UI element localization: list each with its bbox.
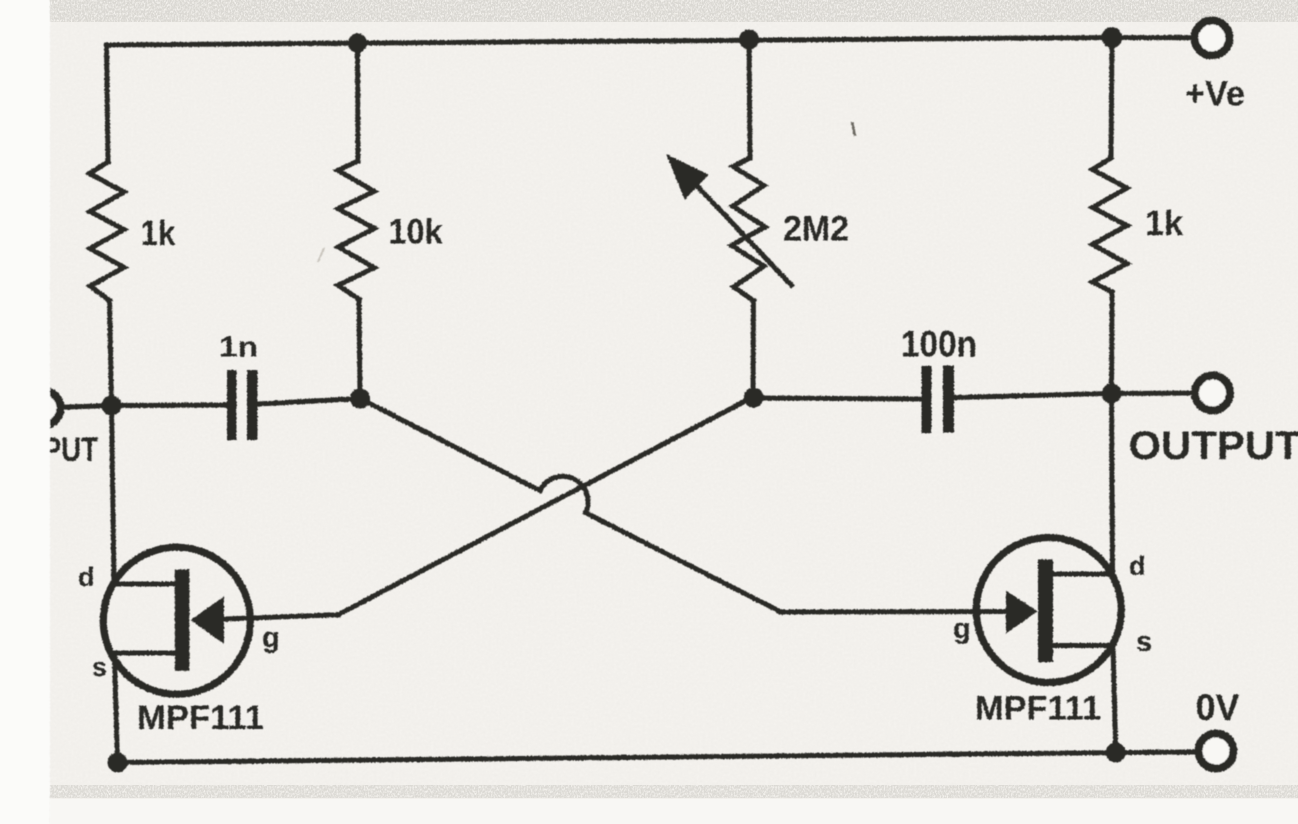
svg-text:g: g bbox=[953, 613, 971, 645]
wire right vertical upper bbox=[1111, 38, 1112, 159]
Q1 channel bar bbox=[175, 569, 190, 670]
terminal 0V bbox=[1199, 734, 1234, 769]
C2 left plate bbox=[922, 366, 932, 433]
wire 2M2 bottom lead bbox=[751, 301, 756, 397]
wire bottom rail bbox=[118, 753, 1116, 763]
svg-text:1n: 1n bbox=[219, 332, 258, 364]
scan texture band bottom bbox=[40, 785, 1298, 798]
wire 2M2 top lead bbox=[749, 40, 750, 159]
wire 10k bottom lead bbox=[359, 299, 360, 398]
wire C1 to node B bbox=[258, 399, 360, 405]
Q2 drain lead bbox=[1053, 572, 1114, 577]
wire input to C1 bbox=[112, 403, 227, 409]
node junction dot bottom left corner bbox=[108, 753, 128, 773]
node junction dot input bbox=[102, 396, 122, 416]
resistor R2 10k zigzag bbox=[338, 161, 374, 299]
scan scratch bbox=[318, 248, 324, 262]
svg-text:s: s bbox=[1136, 626, 1152, 658]
svg-text:s: s bbox=[92, 652, 107, 682]
node A junction dot top 10k bbox=[348, 33, 367, 52]
wire right vertical to drain bbox=[1112, 394, 1113, 575]
capacitor C2 100n bbox=[922, 366, 955, 434]
wire right vertical mid bbox=[1109, 292, 1115, 394]
node B junction dot bbox=[350, 389, 370, 409]
Q1 source lead bbox=[109, 651, 176, 656]
wire left gate horizontal bbox=[224, 615, 338, 619]
svg-text:MPF111: MPF111 bbox=[975, 690, 1101, 728]
transistor Q2 MPF111 right JFET bbox=[976, 538, 1121, 683]
wire input lead bbox=[62, 406, 112, 408]
wire +Ve lead bbox=[1112, 35, 1191, 40]
wire 10k top lead bbox=[355, 43, 361, 161]
wire node C to C2 bbox=[753, 398, 921, 399]
wire left vertical lower bbox=[115, 658, 118, 763]
wire node B cross-couple diagonal with hop bbox=[360, 399, 781, 613]
svg-text:d: d bbox=[1129, 551, 1146, 581]
wire output lead bbox=[1112, 391, 1193, 397]
wire C2 to node D bbox=[954, 394, 1112, 398]
Q1 body circle bbox=[103, 547, 250, 694]
C1 left plate bbox=[227, 370, 237, 440]
svg-text:MPF111: MPF111 bbox=[137, 699, 264, 737]
wire 0V lead bbox=[1116, 750, 1195, 756]
scan texture band top bbox=[40, 0, 1298, 22]
wire node C cross-couple diagonal bbox=[338, 397, 753, 615]
node junction dot bottom right bbox=[1106, 743, 1126, 763]
node C junction dot bbox=[744, 388, 764, 408]
Q1 gate arrowhead bbox=[191, 597, 225, 645]
capacitor C1 1n bbox=[227, 370, 258, 440]
Q2 gate arrowhead bbox=[1006, 591, 1038, 634]
svg-text:1k: 1k bbox=[1145, 204, 1184, 243]
svg-text:OUTPUT: OUTPUT bbox=[1129, 424, 1298, 468]
Q2 body circle bbox=[976, 538, 1121, 683]
resistor VR1 2M2 zigzag bbox=[732, 158, 766, 301]
terminal OUTPUT bbox=[1195, 376, 1230, 411]
scan speck bbox=[852, 122, 855, 136]
left white margin band overlay bbox=[0, 0, 50, 824]
VR1 arrowhead bbox=[668, 156, 707, 198]
node junction dot top 2M2 bbox=[739, 30, 759, 50]
resistor R4 1k right zigzag bbox=[1093, 158, 1128, 292]
svg-text:g: g bbox=[262, 622, 280, 654]
node D junction dot output bbox=[1102, 384, 1122, 404]
svg-text:2M2: 2M2 bbox=[783, 210, 849, 249]
node junction dot top right bbox=[1102, 27, 1123, 48]
wire left vertical upper bbox=[107, 45, 109, 162]
terminal +Ve bbox=[1195, 21, 1230, 56]
Q2 channel bar bbox=[1038, 559, 1053, 662]
Q1 drain lead bbox=[110, 582, 176, 587]
wire left vertical to drain bbox=[112, 405, 115, 585]
wire left vertical mid bbox=[110, 301, 112, 405]
svg-text:0V: 0V bbox=[1196, 687, 1240, 728]
resistor R1 1k left zigzag bbox=[90, 162, 125, 301]
svg-text:+Ve: +Ve bbox=[1185, 75, 1245, 114]
C1 right plate bbox=[247, 370, 258, 440]
lighter strip below bottom band bbox=[50, 799, 1298, 824]
wire right vertical lower bbox=[1113, 647, 1116, 753]
wire right gate horizontal bbox=[781, 609, 1006, 615]
C2 right plate bbox=[943, 366, 954, 433]
wire top rail bbox=[107, 38, 1113, 46]
potentiometer arrow VR1 bbox=[668, 156, 793, 287]
Q2 source lead bbox=[1053, 643, 1114, 648]
terminal INPUT partial bbox=[26, 391, 61, 426]
VR1 arrow shaft bbox=[681, 169, 793, 287]
svg-text:10k: 10k bbox=[389, 213, 443, 252]
svg-text:100n: 100n bbox=[901, 324, 977, 365]
transistor Q1 MPF111 left JFET bbox=[103, 547, 250, 694]
svg-text:1k: 1k bbox=[141, 214, 176, 253]
svg-text:d: d bbox=[78, 562, 95, 592]
